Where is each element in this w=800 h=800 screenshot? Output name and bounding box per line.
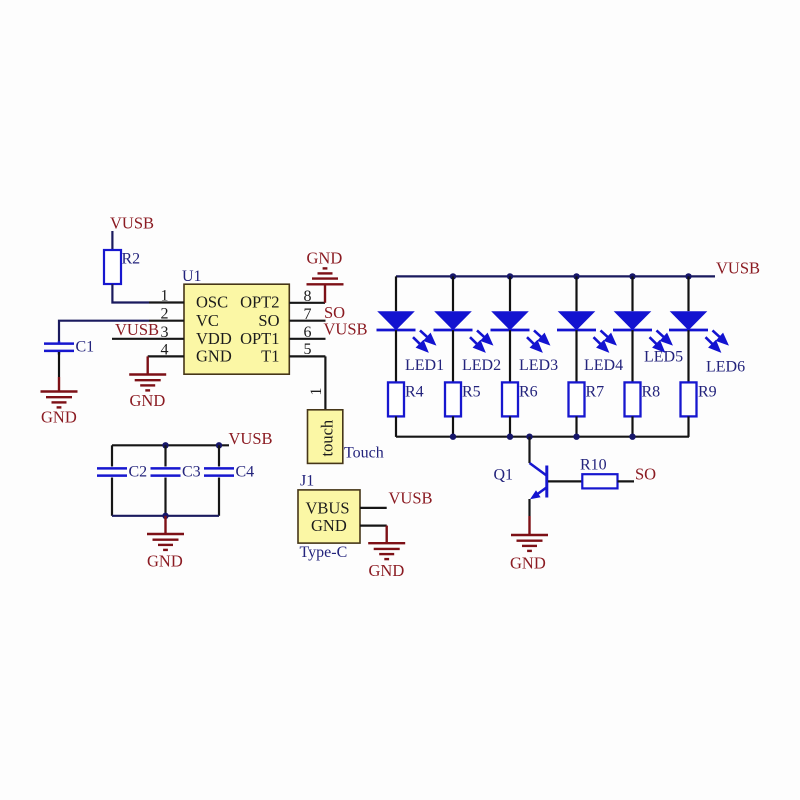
svg-text:R10: R10 xyxy=(580,457,607,474)
svg-text:7: 7 xyxy=(304,306,312,323)
svg-text:U1: U1 xyxy=(182,268,202,285)
svg-text:GND: GND xyxy=(147,552,183,571)
svg-text:VBUS: VBUS xyxy=(306,499,350,518)
svg-text:R5: R5 xyxy=(462,384,481,401)
svg-text:Type-C: Type-C xyxy=(300,544,348,561)
svg-text:R9: R9 xyxy=(698,384,717,401)
svg-text:R4: R4 xyxy=(405,384,424,401)
svg-text:LED2: LED2 xyxy=(462,357,501,374)
svg-text:R6: R6 xyxy=(519,384,538,401)
svg-text:R7: R7 xyxy=(586,384,605,401)
svg-text:C1: C1 xyxy=(76,339,95,356)
svg-text:SO: SO xyxy=(635,465,656,484)
svg-text:1: 1 xyxy=(308,388,325,396)
svg-text:1: 1 xyxy=(161,288,169,305)
svg-text:VUSB: VUSB xyxy=(115,320,159,339)
svg-text:OPT1: OPT1 xyxy=(240,329,279,348)
svg-text:GND: GND xyxy=(369,561,405,580)
svg-text:C4: C4 xyxy=(236,464,255,481)
svg-text:8: 8 xyxy=(304,288,312,305)
svg-text:VUSB: VUSB xyxy=(389,489,433,508)
svg-text:VC: VC xyxy=(196,311,219,330)
svg-text:GND: GND xyxy=(510,553,546,572)
svg-text:LED5: LED5 xyxy=(644,349,683,366)
svg-text:LED3: LED3 xyxy=(519,357,558,374)
svg-text:5: 5 xyxy=(304,341,312,358)
svg-text:VDD: VDD xyxy=(196,329,232,348)
svg-text:T1: T1 xyxy=(261,347,279,366)
svg-text:Q1: Q1 xyxy=(494,467,514,484)
svg-text:GND: GND xyxy=(196,347,232,366)
svg-text:LED4: LED4 xyxy=(584,357,623,374)
svg-text:LED6: LED6 xyxy=(706,359,745,376)
svg-text:OSC: OSC xyxy=(196,293,228,312)
svg-text:GND: GND xyxy=(311,516,347,535)
svg-text:Touch: Touch xyxy=(344,444,384,461)
svg-text:touch: touch xyxy=(318,419,337,456)
svg-text:LED1: LED1 xyxy=(405,357,444,374)
svg-text:2: 2 xyxy=(161,306,169,323)
svg-text:GND: GND xyxy=(130,391,166,410)
svg-text:C3: C3 xyxy=(182,464,201,481)
svg-text:SO: SO xyxy=(258,311,279,330)
svg-text:GND: GND xyxy=(41,408,77,427)
svg-text:OPT2: OPT2 xyxy=(240,293,279,312)
svg-text:4: 4 xyxy=(161,341,169,358)
svg-text:GND: GND xyxy=(307,249,343,268)
svg-text:VUSB: VUSB xyxy=(716,259,760,278)
svg-text:VUSB: VUSB xyxy=(324,320,368,339)
svg-text:J1: J1 xyxy=(300,473,314,490)
svg-text:VUSB: VUSB xyxy=(229,429,273,448)
svg-text:VUSB: VUSB xyxy=(110,214,154,233)
svg-text:C2: C2 xyxy=(129,464,148,481)
svg-text:R2: R2 xyxy=(122,251,141,268)
svg-text:3: 3 xyxy=(161,324,169,341)
svg-text:6: 6 xyxy=(304,324,312,341)
svg-text:R8: R8 xyxy=(642,384,661,401)
